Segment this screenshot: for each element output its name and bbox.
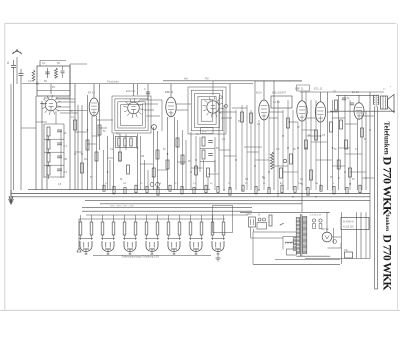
svg-text:WID: WID (116, 133, 121, 136)
svg-text:ECH: ECH (202, 131, 207, 133)
svg-text:C: C (144, 88, 146, 91)
svg-text:Telefunken: Telefunken (382, 122, 390, 155)
svg-text:0,1: 0,1 (42, 61, 46, 65)
svg-text:Fadenspannungs-Schaltung 6,3V: Fadenspannungs-Schaltung 6,3V (122, 256, 159, 259)
svg-text:AZ 12: AZ 12 (322, 227, 329, 231)
svg-text:1M: 1M (158, 183, 161, 185)
svg-text:EBF 11: EBF 11 (165, 90, 174, 94)
svg-text:D 770 WKK: D 770 WKK (381, 235, 393, 291)
svg-text:ECH: ECH (44, 97, 49, 100)
svg-text:4,5: 4,5 (28, 79, 32, 83)
svg-text:1M: 1M (245, 179, 248, 181)
svg-text:EL 12: EL 12 (352, 90, 359, 94)
svg-text:220V: 220V (246, 213, 252, 216)
svg-text:FM: FM (205, 78, 208, 81)
svg-text:0,1: 0,1 (71, 116, 75, 119)
svg-text:0,1 50 0,14: 0,1 50 0,14 (310, 215, 322, 217)
svg-text:ECH 11: ECH 11 (126, 89, 135, 93)
svg-text:2M: 2M (141, 156, 144, 158)
svg-text:N 220 125: N 220 125 (343, 227, 354, 229)
svg-text:2M: 2M (315, 183, 318, 185)
svg-text:ECL 11: ECL 11 (314, 87, 323, 91)
svg-text:2M: 2M (123, 183, 126, 185)
svg-text:Trnd anm: Trnd anm (107, 79, 120, 83)
svg-text:ʼfunken: ʼfunken (384, 213, 390, 233)
svg-text:1M: 1M (84, 158, 87, 161)
svg-text:TXT + TXT + TXT + TXT: TXT + TXT + TXT + TXT (110, 206, 134, 208)
svg-text:EF 13: EF 13 (88, 91, 95, 95)
svg-text:D 770 WKK: D 770 WKK (381, 157, 395, 216)
svg-text:ECH: ECH (256, 91, 262, 95)
svg-text:AM: AM (184, 78, 188, 81)
svg-text:W 4000 W: W 4000 W (343, 222, 355, 224)
